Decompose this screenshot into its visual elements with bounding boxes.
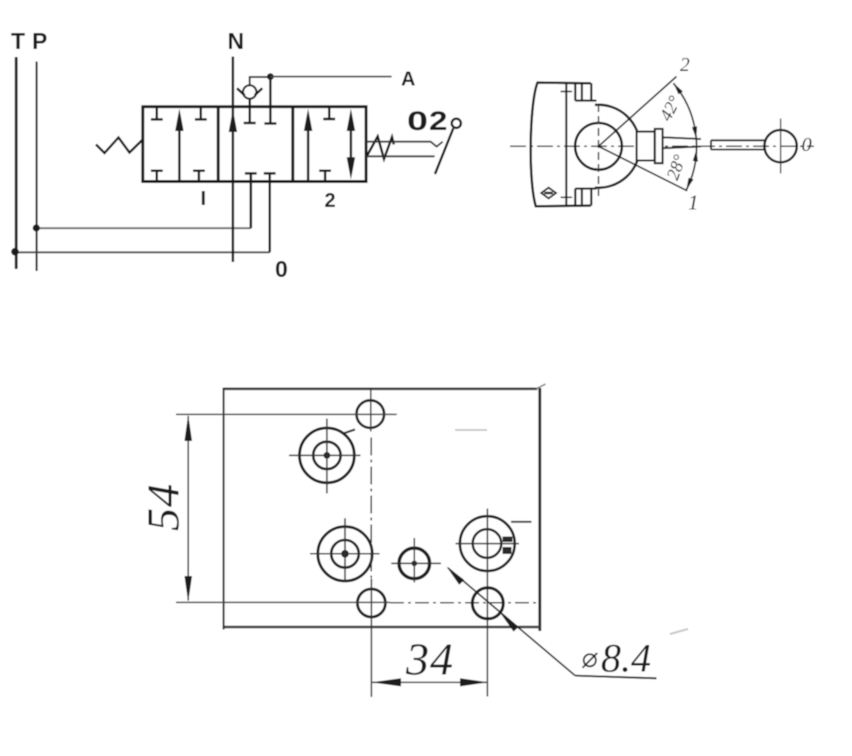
wire P to valve (horizontal) (37, 227, 251, 229)
junction dot P (33, 224, 40, 231)
top lug (575, 83, 596, 100)
svg-text:2: 2 (325, 190, 336, 212)
center box: flow arrow up on N line (229, 110, 237, 132)
svg-text:34: 34 (405, 634, 454, 685)
right box: blocked port top (323, 107, 335, 119)
check valve upper wire to A junction (250, 77, 271, 85)
svg-text:0: 0 (275, 256, 288, 282)
left box: blocked port top-right (195, 107, 207, 120)
leader underline (575, 676, 657, 679)
svg-text:I: I (201, 188, 207, 210)
hole B2 upper-left large (300, 428, 355, 483)
hole B6 bottom small (357, 589, 385, 617)
dim 34 line (372, 681, 488, 683)
divider 2 (291, 107, 294, 182)
horizontal centerline (510, 145, 814, 147)
fan arc (673, 83, 696, 190)
hole B1 top small (357, 400, 385, 428)
svg-text:P: P (32, 28, 47, 54)
dim 54 arrow down (185, 576, 193, 602)
hole B2 centerlines (289, 419, 361, 494)
fan arc arrowhead at 1 end (686, 178, 693, 190)
boss flange (655, 129, 663, 163)
hole B4 center small (8.4 dia) (399, 548, 430, 579)
junction dot T (11, 248, 19, 256)
plate left edge (223, 388, 225, 630)
valve body side outline (531, 83, 591, 207)
plate bottom edge (224, 626, 541, 629)
bottom lug (575, 189, 596, 206)
dome housing arc (595, 105, 640, 188)
wire P riser into valve (250, 173, 253, 228)
left box: flow arrow up (178, 128, 180, 182)
hole B3 lower-left large (318, 527, 372, 581)
svg-text:0: 0 (407, 106, 428, 136)
label dia 8.4 (583, 653, 598, 668)
right box: blocked port bottom (319, 171, 331, 182)
pivot vertical centerline (598, 104, 600, 196)
line lower (366, 155, 435, 157)
right box: double headed arrow (350, 128, 352, 160)
dim 34 arrow left (372, 678, 401, 686)
long vertical centerline through B5 and B7 (486, 509, 488, 697)
check valve seat (237, 88, 262, 95)
left box: blocked port bottom-left (151, 171, 163, 182)
plate right edge (538, 388, 541, 631)
shaft inner section (663, 137, 701, 148)
svg-text:54: 54 (138, 483, 189, 531)
leader arrowhead at B4 (447, 567, 465, 585)
dim 54 arrow up (185, 415, 193, 441)
plate corner tick (536, 384, 546, 389)
line N (232, 57, 234, 263)
center box: bottom port bar left (245, 172, 257, 174)
bottom row horizontal centerline dash-dot part (390, 602, 540, 604)
center box: bottom port bar right (264, 172, 276, 174)
vertical dash-dot plate centerline (370, 438, 372, 579)
body flange line (565, 83, 567, 206)
lug hole centerline ticks (561, 91, 572, 93)
leader arrowhead at B7 (500, 612, 519, 632)
faint scan artifact lines (455, 429, 487, 431)
leader line dia 8.4 (448, 568, 575, 676)
hole B6 vertical centerline / 34 extension (370, 579, 372, 698)
svg-text:2: 2 (680, 55, 690, 76)
wire T to valve (horizontal) (15, 251, 270, 253)
shaft outer section (711, 140, 766, 149)
left box: blocked port top-left (151, 107, 163, 120)
detent line upper with notch (366, 142, 443, 147)
lever knob circle (452, 119, 461, 128)
svg-text:N: N (228, 28, 245, 54)
svg-text:A: A (401, 69, 415, 91)
boss cylinder (637, 132, 655, 161)
bottom row horizontal centerline solid part (176, 601, 390, 603)
check valve above center box (243, 85, 256, 98)
dim 34 arrow right (460, 678, 488, 686)
plate top edge (223, 387, 538, 390)
hole B4 centerlines (391, 538, 441, 583)
hole B7 bottom-right small (8.4 dia) (472, 588, 503, 619)
hole B3 centerlines (310, 518, 380, 582)
center box: blocked bar under A stub (264, 122, 276, 124)
svg-text:2: 2 (429, 106, 448, 136)
hole B5 horizontal centerline (456, 543, 519, 545)
pivot circle (575, 123, 622, 170)
stub from A junction into box (269, 77, 271, 124)
lever line (435, 128, 453, 174)
hole B1 vertical centerline (370, 388, 372, 432)
check valve lower stub into box (248, 99, 250, 123)
tick right of B5 (511, 521, 532, 523)
54 top extension / B1 horizontal centerline (176, 413, 397, 415)
hole B5 right large (460, 516, 515, 571)
radial line to position 2 (599, 77, 677, 147)
fan arc arrowhead at 2 end (673, 83, 683, 94)
dim 54 line (187, 416, 189, 601)
ball knob (764, 130, 796, 162)
svg-text:T: T (11, 28, 25, 54)
diamond mark in body (541, 188, 556, 199)
line T (tank) (15, 57, 18, 269)
radial line to position 1 (599, 146, 688, 191)
svg-text:0: 0 (802, 134, 812, 156)
svg-text:8.4: 8.4 (601, 636, 651, 681)
valve body (3 position boxes) (143, 107, 366, 182)
hole B5 dark marks (503, 537, 513, 543)
wire T riser into valve (269, 173, 271, 252)
wire to port A (270, 76, 391, 78)
spring left (96, 138, 143, 154)
right box: flow arrow up (307, 129, 309, 182)
center box: blocked bar under check valve stub (244, 122, 256, 124)
fan arc arrowhead above lever (692, 126, 697, 138)
fan arc arrowhead below lever (693, 150, 698, 162)
ball vertical centerline (780, 119, 782, 174)
divider 1 (217, 107, 220, 182)
hole B2 top-right tick (344, 430, 355, 434)
junction dot A (267, 73, 274, 80)
line P (pressure) (36, 62, 38, 272)
spring right (366, 136, 394, 159)
left box: blocked port bottom-right (193, 171, 205, 182)
svg-text:1: 1 (688, 191, 699, 215)
